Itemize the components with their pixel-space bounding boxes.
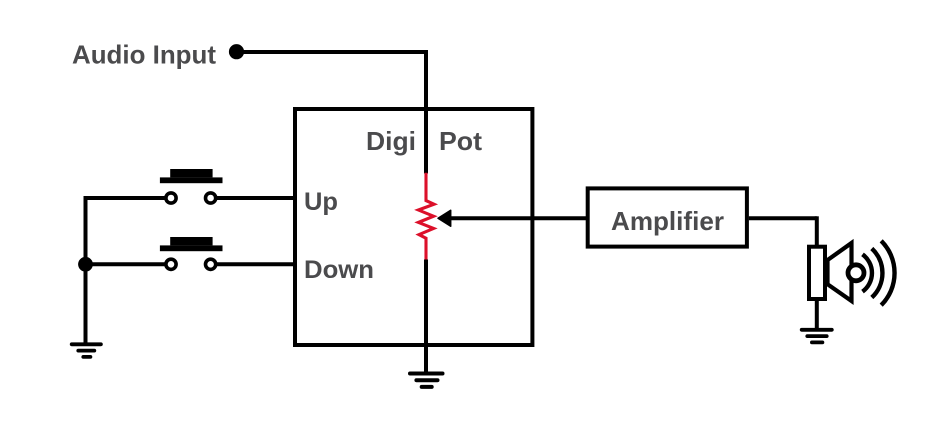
- svg-text:Amplifier: Amplifier: [611, 206, 724, 236]
- pushbutton SW1 terminal left: [166, 193, 176, 203]
- wiper arrow into potentiometer: [438, 210, 451, 226]
- pushbutton SW1 (Up): actuator cap: [160, 169, 223, 183]
- svg-text:Down: Down: [304, 256, 374, 284]
- svg-text:Audio Input: Audio Input: [72, 40, 216, 70]
- node: junction dot on rail: [78, 257, 93, 272]
- wire: wiper to amplifier: [449, 216, 586, 220]
- IC box: Digi Pot: [295, 109, 532, 345]
- speaker LS1: cone/horn: [828, 243, 852, 301]
- pushbutton SW2 terminal left: [166, 259, 176, 269]
- speaker sound wave arc 2: [872, 249, 883, 298]
- pushbutton SW2 (Down): actuator cap: [160, 237, 223, 251]
- ground: below speaker: [802, 330, 832, 343]
- wire: up row from rail to left button terminal: [86, 196, 165, 200]
- svg-text:Up: Up: [304, 188, 338, 216]
- ground: below Digi Pot box: [410, 374, 443, 387]
- wire: audio input vertical drop: [424, 50, 428, 109]
- svg-text:Digi: Digi: [366, 126, 416, 156]
- wire: top pin inside box down to resistor: [424, 107, 428, 174]
- amplifier box U1: [588, 188, 747, 246]
- resistor: digital potentiometer element (red zigzag): [418, 173, 434, 261]
- wire: up row from right button terminal to box: [217, 196, 295, 200]
- pushbutton SW2 terminal right: [206, 259, 216, 269]
- ground: bottom left: [72, 344, 101, 357]
- wire: amplifier output vertical drop to speaker: [815, 216, 819, 246]
- wire: resistor bottom to box bottom and ground stem: [424, 260, 428, 374]
- pushbutton SW1 terminal right: [206, 193, 216, 203]
- node: audio input dot: [229, 44, 244, 59]
- wire: audio input horizontal: [237, 50, 429, 54]
- speaker LS1: driver body rectangle: [809, 247, 825, 299]
- svg-text:Pot: Pot: [439, 126, 482, 156]
- wire: amplifier output horizontal: [749, 216, 817, 220]
- wire: left rail vertical: [84, 196, 88, 344]
- wire: down row from right button terminal to box: [217, 262, 295, 266]
- speaker LS1: dome ring: [848, 265, 864, 281]
- speaker sound wave arc 1: [863, 254, 872, 291]
- speaker sound wave arc 3: [881, 241, 894, 305]
- wire: speaker to ground stem: [815, 299, 819, 330]
- wire: down row from rail to left button terminal: [86, 262, 165, 266]
